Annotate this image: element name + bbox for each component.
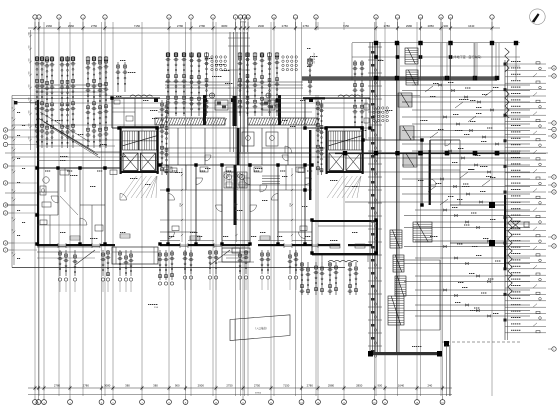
water meters and boxes mid units <box>154 93 313 125</box>
annotation text specks upper <box>120 56 392 127</box>
scattered annotation specks <box>60 96 487 347</box>
rooms right of corridor <box>429 140 460 205</box>
pipes between core2 and wing <box>363 98 369 140</box>
svg-text:7150: 7150 <box>283 384 290 388</box>
lobby corridor center <box>238 130 311 200</box>
diagonal pipe runs left <box>37 112 120 158</box>
svg-text:18: 18 <box>12 229 14 231</box>
axis line to bottom right bubble <box>447 345 450 396</box>
bottom axis bubbles <box>33 396 445 404</box>
svg-text:2750: 2750 <box>91 24 98 28</box>
balcony mid-left <box>112 247 158 264</box>
svg-text:18: 18 <box>12 217 14 219</box>
unit interior details extra <box>37 170 312 244</box>
svg-text:7150: 7150 <box>343 24 350 28</box>
stair core S2 <box>326 126 364 174</box>
riser stack pair at core2 <box>352 60 364 128</box>
svg-text:2750: 2750 <box>303 24 310 28</box>
svg-text:18: 18 <box>12 107 14 109</box>
svg-text:18: 18 <box>12 147 14 149</box>
main riser wall and reducer right <box>450 195 529 270</box>
svg-text:18: 18 <box>12 189 14 191</box>
svg-text:2780: 2780 <box>177 24 184 28</box>
svg-text:3080: 3080 <box>221 24 228 28</box>
riser stack group mid-left <box>165 52 209 116</box>
svg-text:2980: 2980 <box>328 384 335 388</box>
svg-text:2960: 2960 <box>68 24 75 28</box>
entry porch center <box>218 248 254 262</box>
svg-text:2850: 2850 <box>356 384 363 388</box>
horizontal pipe runs lower right <box>404 207 530 317</box>
long horizontal reference lines <box>5 43 548 206</box>
middle apartment partition walls <box>160 165 312 244</box>
svg-text:1640: 1640 <box>398 384 405 388</box>
svg-text:2780: 2780 <box>307 384 314 388</box>
bottom dimension lines <box>28 384 452 395</box>
upper room block at core2 <box>303 95 370 128</box>
svg-text:900: 900 <box>175 384 180 388</box>
svg-text:900: 900 <box>377 384 382 388</box>
svg-text:2850: 2850 <box>428 24 435 28</box>
stairs lower right wing <box>388 222 432 325</box>
svg-text:(入口坡道): (入口坡道) <box>255 326 266 330</box>
ground line and left boundary <box>12 96 345 268</box>
terrace left <box>37 247 100 258</box>
right wing corridor wall <box>397 42 400 355</box>
svg-text:J: J <box>554 237 555 239</box>
svg-text:900: 900 <box>29 98 31 101</box>
svg-text:J1L-1 2L-#2: J1L-1 2L-#2 <box>313 53 315 65</box>
svg-text:2700: 2700 <box>180 203 182 207</box>
left axis leader lines <box>14 130 37 250</box>
hatched corridor bands <box>155 118 320 125</box>
svg-text:18: 18 <box>12 157 14 159</box>
wing bottom wall <box>368 341 520 357</box>
top dimension line <box>28 22 500 34</box>
svg-text:2360: 2360 <box>46 24 53 28</box>
svg-text:2780: 2780 <box>199 24 206 28</box>
svg-text:18: 18 <box>12 197 14 199</box>
door swing arcs <box>120 178 312 239</box>
svg-text:380: 380 <box>153 384 158 388</box>
svg-text:900: 900 <box>29 59 31 62</box>
right unit and big room <box>312 140 422 262</box>
riser columns flanking cores <box>159 100 324 175</box>
svg-text:380: 380 <box>125 384 130 388</box>
structural columns black squares <box>374 41 518 155</box>
elevator shafts E3 E4 <box>326 153 364 173</box>
unit interior fixtures <box>40 168 365 248</box>
horizontal pipe runs upper right <box>345 82 530 203</box>
central riser shaft verticals <box>228 32 250 152</box>
svg-text:2700: 2700 <box>290 203 292 207</box>
svg-text:900: 900 <box>443 24 448 28</box>
svg-text:2900: 2900 <box>198 384 205 388</box>
riser stack group left (washer risers) <box>14 56 109 148</box>
svg-text:J: J <box>5 250 6 252</box>
svg-text:2780: 2780 <box>54 384 61 388</box>
riser stack group mid-right <box>237 52 279 116</box>
secondary left dimension line <box>29 30 32 150</box>
svg-text:57850: 57850 <box>255 393 262 395</box>
svg-text:2750: 2750 <box>254 384 261 388</box>
floor drain risers below right units <box>299 262 358 295</box>
svg-text:18: 18 <box>12 137 14 139</box>
svg-text:2780: 2780 <box>384 24 391 28</box>
interior dimension strings <box>180 168 293 242</box>
svg-text:2980: 2980 <box>406 24 413 28</box>
right riser label column <box>504 60 547 340</box>
svg-text:18: 18 <box>12 169 14 171</box>
rooms between cores <box>160 128 325 165</box>
svg-text:900: 900 <box>29 33 31 36</box>
svg-text:L: L <box>553 349 554 351</box>
upper thick floor band <box>302 77 497 81</box>
left axis bubbles and dimension line <box>3 100 25 265</box>
svg-text:2900: 2900 <box>258 24 265 28</box>
svg-text:2750: 2750 <box>226 384 233 388</box>
svg-text:900: 900 <box>29 85 31 88</box>
riser stack at courtyard edge <box>307 53 314 95</box>
svg-text:3080: 3080 <box>104 384 111 388</box>
mid thick floor band right <box>335 151 520 155</box>
leader lines and caption specks <box>37 156 230 309</box>
svg-text:18: 18 <box>12 125 14 127</box>
svg-text:57850: 57850 <box>240 22 247 24</box>
construction grid vertical lines <box>35 22 492 396</box>
appliance dot grid clusters <box>211 56 389 122</box>
svg-text:18: 18 <box>12 252 14 254</box>
diagonal leader annotations right <box>425 83 498 205</box>
north arrow symbol <box>530 9 546 25</box>
floor drain risers below left units <box>57 250 174 292</box>
exterior south wall with windows <box>37 244 372 246</box>
svg-text:2780: 2780 <box>83 384 90 388</box>
right axis bubbles <box>548 66 556 351</box>
svg-text:240: 240 <box>427 384 432 388</box>
svg-text:900: 900 <box>29 111 31 114</box>
elevator shafts E1 E2 <box>120 153 159 173</box>
top axis bubbles <box>33 15 494 26</box>
svg-text:900: 900 <box>29 46 31 49</box>
floor drain risers below middle units <box>182 250 298 290</box>
svg-text:900: 900 <box>29 137 31 140</box>
svg-text:2750: 2750 <box>282 24 289 28</box>
upper room block left of core1 <box>112 95 162 128</box>
wall junction blobs <box>35 96 423 254</box>
small stairs upper corridor <box>398 48 418 167</box>
ramp parallelogram center <box>230 315 290 341</box>
svg-text:900: 900 <box>29 72 31 75</box>
vertical pipe chase right wing <box>368 42 382 357</box>
svg-text:7150: 7150 <box>134 24 141 28</box>
central bathrooms fixtures <box>224 172 247 188</box>
svg-text:18: 18 <box>12 117 14 119</box>
left apartment unit walls <box>37 100 120 246</box>
riser stack pair above core1 <box>115 62 127 97</box>
stair core S1 <box>120 126 159 174</box>
horizontal pipe bundles upper <box>36 82 303 92</box>
columns on second garage line <box>374 55 452 59</box>
mid band floor lines <box>12 99 370 129</box>
expansion sawtooth symbols <box>505 48 512 299</box>
elevator lobby hatch <box>121 176 361 198</box>
garage structure lines <box>307 43 520 80</box>
svg-text:2700: 2700 <box>235 203 237 207</box>
svg-text:1640: 1640 <box>468 24 475 28</box>
window jamb ticks <box>58 243 318 248</box>
lower rooms right wing <box>400 260 440 330</box>
